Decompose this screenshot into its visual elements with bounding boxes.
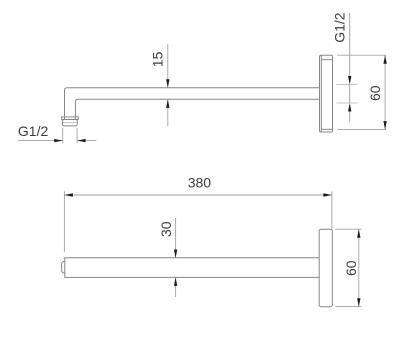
dimension 60 (bottom view): extension lines xyxy=(335,229,362,306)
inlet nut bulge (bottom view) xyxy=(62,261,65,273)
dimension G1/2 (inlet nut): dimension lines xyxy=(18,140,96,142)
svg-text:G1/2: G1/2 xyxy=(18,123,49,139)
arm tube (bottom view) xyxy=(65,258,319,278)
shower arm outer outline (side view) xyxy=(65,88,320,117)
dimension 60 (side view): dimension line xyxy=(384,55,386,129)
svg-text:30: 30 xyxy=(158,221,174,237)
dimension 15: arrowheads xyxy=(166,79,169,108)
dimension G1/2 (wall thread): extension ticks xyxy=(336,85,357,104)
dimension 380: dimension line xyxy=(64,194,332,196)
threaded nut body of fitting xyxy=(63,120,78,126)
svg-text:15: 15 xyxy=(149,51,165,67)
dimension 60 (bottom view): dimension line xyxy=(358,229,360,307)
dimension 380: arrowheads xyxy=(64,193,332,196)
wall flange (bottom view) xyxy=(319,229,332,307)
shower arm inner outline (side view) xyxy=(75,99,319,116)
svg-text:60: 60 xyxy=(367,85,383,101)
dimension 60 (bottom view): arrowheads xyxy=(357,229,360,307)
dimension 60 (side view): extension lines xyxy=(337,55,386,129)
svg-text:380: 380 xyxy=(188,174,212,190)
wall flange (side view) xyxy=(320,55,333,132)
svg-text:G1/2: G1/2 xyxy=(332,12,348,43)
svg-text:60: 60 xyxy=(343,260,359,276)
dimension G1/2 (inlet nut): arrowheads xyxy=(54,139,85,142)
dimension 15: dimension line xyxy=(167,44,169,127)
dimension G1/2 (wall thread): arrowheads xyxy=(348,76,351,112)
dimension G1/2 (inlet nut): extension lines xyxy=(63,128,77,143)
wall-end collar washer of fitting xyxy=(62,117,79,120)
dimension 30: arrowheads xyxy=(174,250,177,286)
dimension 380: extension lines xyxy=(64,191,332,252)
dimension 60 (side view): arrowheads xyxy=(383,55,386,129)
dimension G1/2 (wall thread): centerline xyxy=(349,13,351,122)
dimension 30: dimension line xyxy=(175,218,177,297)
